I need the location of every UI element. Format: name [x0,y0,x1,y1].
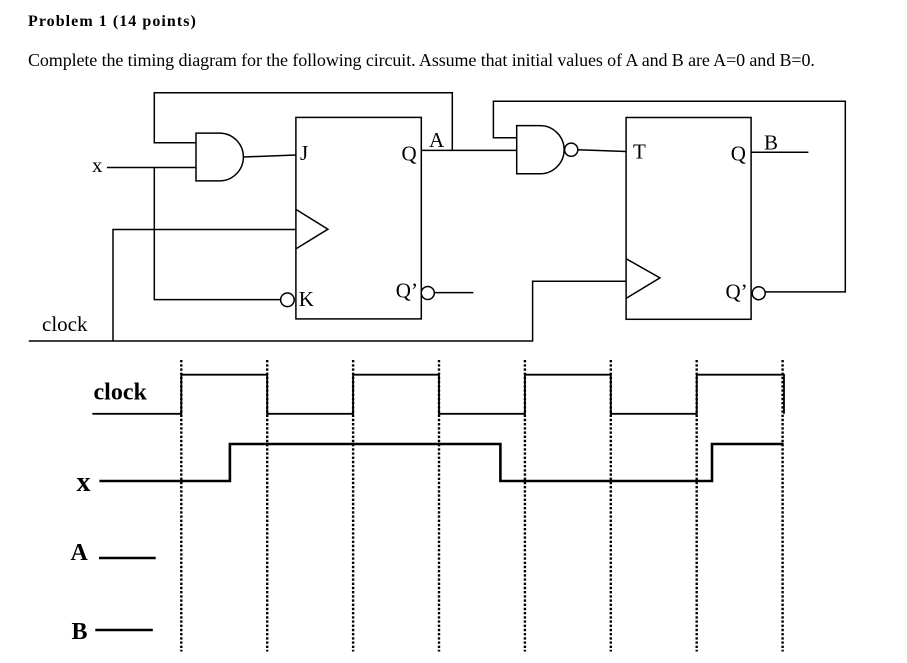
wire feedback from node A to AND gate top input [154,93,452,151]
wire x input [107,167,196,169]
x waveform label [77,467,91,498]
svg-text:Q: Q [731,142,746,166]
svg-text:T: T [633,140,646,164]
svg-text:B: B [72,619,88,645]
wire feedback from T Q' to NAND top input [493,101,845,292]
T flip-flop clock triangle [626,259,660,299]
node clock label [42,312,88,336]
B waveform label [72,619,88,645]
grid line t6 [610,360,612,652]
grid line t2 [266,360,268,652]
grid line t8 [781,360,783,652]
pin label Q' of JK [396,279,418,303]
wire NAND output to T pin [578,150,626,152]
node x label [92,153,103,177]
wire B output stub [751,151,808,153]
K input bubble [281,293,295,307]
AND gate [196,133,243,181]
T Q' output bubble [752,287,765,300]
signal A initial level line [99,557,156,560]
clock waveform label [94,380,148,406]
timing diagram grid: dotted vertical lines [181,360,782,652]
grid line t3 [352,360,354,652]
A waveform label [71,540,89,566]
svg-text:K: K [299,287,314,311]
wire Q output of JK (node A) to NAND input [421,149,516,151]
svg-text:clock: clock [42,312,88,336]
wire clock net [29,281,626,341]
grid line t7 [696,360,698,652]
svg-text:A: A [71,540,89,566]
instructions [28,50,815,71]
JK Q' output bubble [421,287,434,300]
svg-text:Q’: Q’ [396,279,418,303]
pin label Q of JK [402,142,417,166]
svg-text:B: B [764,131,778,155]
svg-text:Q: Q [402,142,417,166]
pin label Q' of T [726,280,748,304]
grid line t5 [524,360,526,652]
JK flip-flop clock triangle [296,209,328,249]
wire x to K input [154,168,281,300]
svg-text:x: x [92,153,103,177]
pin label K [299,287,314,311]
signal B initial level line [95,629,153,632]
pin label T [633,140,646,164]
NAND gate [517,126,564,174]
title [28,13,197,31]
wire JK Q' stub [434,292,473,294]
svg-text:x: x [77,467,91,498]
svg-text:A: A [429,128,445,152]
x waveform [99,444,783,481]
grid line t1 [180,360,182,652]
node A label [429,128,445,152]
pin label Q of T [731,142,746,166]
grid line t4 [438,360,440,652]
wire AND output to J pin [243,155,296,157]
node B label [764,131,778,155]
svg-text:clock: clock [94,380,148,406]
wire JK clock input [113,230,296,342]
clock waveform [92,375,784,414]
T flip-flop U2 body [626,118,751,320]
NAND output bubble [565,143,578,156]
svg-text:Q’: Q’ [726,280,748,304]
JK flip-flop U1 body [296,117,421,319]
pin label J [300,141,308,165]
svg-text:J: J [300,141,308,165]
